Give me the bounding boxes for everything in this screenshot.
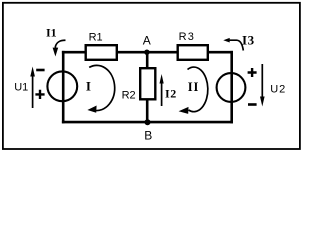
I1 arrow [55,40,65,49]
voltage source U1 [47,71,77,101]
resistor R1 [86,45,117,60]
svg-text:U1: U1 [14,81,28,93]
svg-text:U2: U2 [270,84,286,96]
resistor R2 [140,68,155,99]
svg-text:I3: I3 [242,32,255,47]
svg-text:B: B [144,129,152,143]
svg-text:II: II [188,80,200,94]
svg-text:R3: R3 [179,31,195,43]
U1 minus sign [36,69,44,72]
svg-text:R1: R1 [89,31,103,43]
wire right branch (through source U2) [230,51,233,124]
U1 arrow (up) [32,73,34,108]
U1 plus sign [35,90,44,99]
wire bottom (U1 bottom corner through node B to U2 bottom corner) [62,121,233,124]
resistor R3 [178,45,208,60]
I2 arrow (up) [161,80,163,106]
svg-text:R2: R2 [122,90,136,102]
svg-text:I: I [86,79,91,94]
node B [145,119,151,125]
svg-text:I1: I1 [46,26,57,40]
wire middle branch A-B (through R2) [146,52,149,122]
node A [144,50,149,55]
border frame [3,3,300,149]
svg-text:I2: I2 [165,86,177,100]
svg-text:A: A [143,33,151,47]
I3 arrow [229,40,243,50]
U2 plus sign [248,68,257,77]
voltage source U2 [217,73,246,102]
U2 minus sign [248,103,257,106]
U2 arrow (down) [261,64,263,99]
wire top (U1 top corner to U2 top corner) [62,51,233,54]
wire left branch (through source U1) [62,51,65,124]
loop II arc [188,67,208,112]
loop I arc [89,65,114,110]
